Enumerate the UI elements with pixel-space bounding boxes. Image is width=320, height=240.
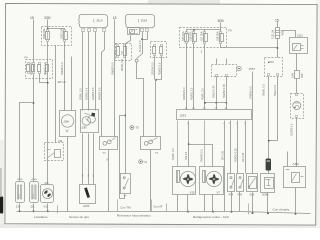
pin F129 top [296, 94, 298, 96]
riser fuse2 [193, 30, 195, 32]
node junction b [215, 102, 217, 104]
svg-text:SW/BR 0.35: SW/BR 0.35 [223, 84, 226, 98]
stub into J293 a [216, 103, 218, 110]
pin 6 of J519 right [146, 29, 149, 32]
wire S13 down [154, 56, 156, 80]
node junction F9 bus [193, 29, 195, 31]
node junction J20 branch [33, 102, 35, 104]
fuse box FD (dashed, centre) [116, 44, 132, 61]
fuse S7 [38, 63, 41, 74]
svg-text:BR/WS 0.5: BR/WS 0.5 [98, 87, 101, 100]
svg-text:J21: J21 [30, 204, 35, 208]
wire S131 down [277, 39, 279, 58]
connector J519 right (plate 2) [125, 15, 155, 28]
svg-text:GE 0.35: GE 0.35 [242, 152, 245, 162]
svg-text:F54: F54 [238, 192, 243, 196]
wire J293 to ground bus mid [224, 121, 226, 212]
relay box J322 [290, 38, 308, 54]
valve Y7 left [100, 137, 118, 150]
fuse box F9 (dashed) [180, 28, 227, 48]
wire branch to J20 [20, 103, 34, 182]
svg-text:SW/BL 0.5: SW/BL 0.5 [263, 84, 266, 96]
svg-text:GN/WS 0.5: GN/WS 0.5 [250, 86, 253, 99]
pressure switch F129 (dashed box) [291, 94, 304, 119]
svg-text:TD: TD [135, 127, 139, 130]
svg-text:BL/GE 0.5: BL/GE 0.5 [139, 40, 142, 52]
svg-text:0,84: 0,84 [292, 73, 295, 78]
node ground dot J21 [33, 210, 35, 212]
svg-text:SW/LI 0.35: SW/LI 0.35 [213, 85, 216, 98]
riser fuse3 [204, 30, 206, 32]
wire J322 to resistor [296, 54, 298, 71]
resistor S39 [295, 71, 300, 79]
svg-text:Con AT: Con AT [153, 205, 163, 209]
svg-text:G256: G256 [83, 204, 90, 208]
svg-text:B30: B30 [45, 16, 51, 20]
node junction fan branch [188, 143, 190, 145]
svg-text:RO/GE 0.35: RO/GE 0.35 [234, 148, 237, 162]
stub T2 top a [216, 59, 218, 65]
svg-text:J20: J20 [16, 204, 21, 208]
pin 1 of J519 left [82, 29, 85, 32]
fuse S5 [27, 63, 30, 74]
switch symbol F129 [293, 102, 301, 110]
svg-text:Sensor de giro: Sensor de giro [69, 215, 89, 219]
terminal symbol 30 [130, 126, 135, 130]
pressure sensor G65 [247, 174, 258, 192]
node junction B30 [47, 28, 49, 30]
node ground dot V35 [187, 211, 189, 213]
pin T2/1 [216, 75, 218, 77]
ground bus line [17, 212, 311, 214]
wire T2/1 down [216, 77, 218, 103]
fuse S228 [46, 30, 50, 42]
node ground dot G65 [252, 212, 254, 214]
relay J39 (dashed) [45, 143, 64, 161]
svg-text:SW/LI 0.5: SW/LI 0.5 [274, 84, 277, 96]
wire J286 to ground bus [67, 137, 69, 212]
wire D2/2 down [277, 77, 279, 141]
svg-text:S131 5A: S131 5A [272, 29, 275, 39]
wire G65 to bus [252, 193, 254, 213]
wire V11 to bus [47, 204, 49, 212]
wire V7 motor to bus [212, 195, 214, 212]
stub into J293 b [226, 103, 228, 110]
fuse box FB holder (dashed, left) [26, 60, 53, 79]
stub T2 top b [226, 59, 228, 65]
svg-text:J322: J322 [297, 33, 304, 37]
svg-text:S229 15A: S229 15A [60, 28, 63, 39]
wire V35 motor to bus [187, 195, 189, 212]
wire pin2 to J285 [88, 32, 90, 111]
wire V7 fuse to bus [204, 195, 206, 212]
svg-text:Con TM: Con TM [120, 205, 131, 209]
node dot D2 [268, 62, 270, 64]
wire merged to Y7 right pin [155, 80, 157, 137]
svg-text:J557: J557 [249, 67, 256, 71]
svg-text:S39: S39 [301, 73, 304, 78]
svg-text:↗J59: ↗J59 [292, 162, 299, 166]
svg-text:G65: G65 [249, 193, 254, 197]
pin 2 of J519 left [88, 29, 91, 32]
wire F54 to bus [239, 192, 241, 212]
svg-text:SW/RO 1.0: SW/RO 1.0 [61, 62, 64, 75]
wire relay module to mirror switch [126, 36, 131, 174]
connector blob above N280 [266, 159, 271, 171]
svg-text:RO/BL 2.5: RO/BL 2.5 [172, 148, 175, 160]
pin 4 of J519 left [103, 29, 106, 32]
wire feed to J286 right pin [71, 57, 73, 111]
wire J285 to G256 pin b [88, 134, 90, 185]
wire link to fuse S229 [48, 29, 65, 31]
svg-text:RO/GE 2.5: RO/GE 2.5 [191, 87, 194, 100]
wire J293 spare [245, 121, 247, 174]
wire S17 to J293 [204, 44, 206, 110]
node ground dot F18 [231, 211, 233, 213]
wire TM return elbow [120, 116, 126, 199]
wire terminal-15 to J21 [33, 20, 35, 182]
wire below inline connector [137, 63, 144, 137]
svg-text:GR/RO 0.5: GR/RO 0.5 [92, 87, 95, 100]
svg-text:J285: J285 [81, 126, 87, 130]
node ground dot J59 [295, 213, 297, 215]
connector T2 (dashed, mid) [212, 65, 237, 77]
motor unit J286 [60, 111, 76, 137]
wire pin4 to Y7 left valve [102, 32, 105, 137]
fuse S131 [275, 28, 281, 39]
fuse S16 [193, 32, 197, 44]
wire J21 to bus [33, 204, 35, 212]
terminal symbol 31 [139, 160, 144, 164]
section divider d [166, 204, 168, 212]
sensor G256 [80, 185, 96, 204]
svg-text:S16 20A: S16 20A [189, 31, 192, 41]
svg-text:Refrigeracion motor - AAZ: Refrigeracion motor - AAZ [193, 215, 229, 219]
section divider b [117, 200, 119, 212]
fuse S6 [32, 63, 35, 74]
thermo switch F18 [228, 174, 235, 192]
svg-text:15: 15 [30, 16, 34, 20]
wire J293 to V35 fuse pin [177, 121, 179, 167]
wire D2/1 to N280 [268, 77, 270, 159]
stub J59 aux [287, 152, 289, 167]
node connector ring T2 [237, 66, 241, 70]
node junction N280 branch [268, 140, 270, 142]
node junction c [226, 102, 228, 104]
wire S15 to J293 [186, 44, 188, 110]
svg-text:S17 30A: S17 30A [200, 31, 203, 41]
node connector in line [135, 59, 138, 62]
wire J285 to G256 pin a [82, 134, 84, 185]
fuse S13 [153, 45, 156, 56]
wire resistor to F129 [296, 79, 298, 94]
pin 3 of J519 left [94, 29, 97, 32]
svg-text:B30: B30 [218, 19, 224, 23]
wire J59 to bus right [295, 188, 297, 214]
wire B30 to fuse box F9 [220, 23, 222, 32]
svg-text:Retrovisor fotocromatico: Retrovisor fotocromatico [117, 214, 151, 218]
section divider a [57, 206, 59, 214]
svg-text:J39: J39 [58, 139, 63, 143]
fuse box SA (dashed) [42, 27, 72, 46]
wire J20 to bus [19, 204, 21, 212]
svg-text:V7: V7 [217, 191, 221, 195]
wire pin6 down [147, 32, 149, 40]
svg-text:Y7: Y7 [102, 151, 106, 155]
radiator fan V7 [200, 167, 224, 195]
thermo switch F54 [237, 174, 244, 192]
node junction mirror feed [124, 115, 126, 117]
pin D2/1 [268, 74, 270, 76]
pin 5 of J519 right [141, 29, 144, 32]
wire branch to V7 motor [189, 145, 213, 167]
svg-text:V35: V35 [190, 191, 195, 195]
valve N280 [261, 174, 275, 193]
wire V35 fuse to bus [177, 195, 179, 212]
fuse S18 [220, 32, 224, 44]
svg-text:F9: F9 [228, 29, 232, 33]
wire B30 feed to fuse S228 [47, 20, 49, 31]
relay J59 [284, 167, 306, 188]
mirror switch box (Con TM) [121, 174, 131, 196]
svg-text:15: 15 [113, 16, 117, 20]
svg-text:S228 20A: S228 20A [43, 28, 46, 39]
fuse S229 [64, 30, 68, 42]
svg-text:SW 2.5: SW 2.5 [185, 151, 188, 160]
connector J519 left (onboard supply unit plate) [79, 15, 108, 28]
svg-text:GE/RO 0.5: GE/RO 0.5 [290, 123, 293, 136]
wire J322 top hook [282, 31, 296, 38]
wire T2/2 down [226, 77, 228, 103]
svg-text:Con climatic.: Con climatic. [273, 208, 291, 212]
valve Y7 right [141, 137, 161, 150]
fuse S8 [46, 63, 49, 74]
svg-text:15: 15 [275, 18, 279, 22]
wire Y7 left to ground bus [108, 150, 110, 212]
svg-text:RO/GE 0.5: RO/GE 0.5 [158, 62, 161, 75]
svg-text:GE/SW 0.5: GE/SW 0.5 [151, 62, 154, 75]
wire J293 to F54 [237, 121, 239, 174]
wire pin5 down [142, 32, 144, 40]
svg-text:RO/BL 2.5: RO/BL 2.5 [202, 88, 205, 100]
wire J285 to G256 pin c [93, 134, 95, 185]
connector box D2 (dashed) [265, 58, 283, 77]
svg-text:4/58: 4/58 [282, 30, 285, 35]
wire internal bus F9 [187, 30, 221, 32]
wire link to N280 branch [269, 140, 278, 142]
wire pin3 to J285 [95, 32, 97, 111]
section divider c [151, 200, 153, 212]
fuse S11 [124, 45, 127, 58]
svg-text:J519: J519 [96, 18, 103, 22]
node junction a [204, 102, 206, 104]
relay module under J519 right [128, 28, 140, 35]
wire junction bar [205, 102, 227, 104]
node junction pin5/pin6 [141, 38, 143, 40]
wire pin1 to J285 [82, 32, 84, 111]
section divider e [248, 204, 250, 215]
wire link pins [143, 39, 148, 41]
wire J293 to F18 [230, 121, 232, 174]
wire Y7 right to ground bus [150, 150, 152, 212]
svg-text:J293: J293 [180, 114, 187, 118]
wire J293 to V7 fuse pin [204, 121, 206, 167]
wire J293 to V35 motor [188, 121, 190, 167]
pin F129 bottom [296, 116, 298, 118]
radiator fan V35 [173, 167, 196, 195]
svg-text:SW/GR 0.5: SW/GR 0.5 [111, 62, 114, 75]
node ground dot J20 [19, 210, 21, 212]
wire F129 to J59 [296, 118, 298, 167]
svg-text:RO/SW 1.0: RO/SW 1.0 [183, 87, 186, 100]
wire S228 to V11 pump [47, 42, 49, 185]
heater element J21 [30, 179, 39, 203]
svg-text:GR/GE 0.5: GR/GE 0.5 [86, 87, 89, 100]
wire terminal-15 mid to Y7 [114, 20, 116, 137]
svg-text:FA: FA [25, 56, 28, 60]
wire 15 to fuse S131 [277, 22, 279, 28]
wire blob to N280 [268, 171, 270, 174]
control unit J293 (fan control) [177, 110, 252, 120]
node junction pump feed [47, 82, 49, 84]
wire S229 to J286 [64, 42, 66, 111]
fuse S10 [117, 45, 120, 58]
svg-text:Y7: Y7 [155, 151, 159, 155]
wire S7 jog to pump feed [40, 74, 48, 83]
node ground dot N280 [267, 212, 269, 214]
instrument unit J285 [81, 110, 99, 133]
svg-text:N280: N280 [262, 193, 269, 197]
svg-text:WS/BL 0.5: WS/BL 0.5 [121, 59, 124, 71]
svg-text:V11: V11 [44, 182, 49, 185]
pin T2/2 [226, 75, 228, 77]
node ground dot V7 [212, 211, 214, 213]
wire F18 to bus [231, 192, 233, 212]
pump V11 [41, 182, 54, 203]
node ground dot V11 [47, 210, 49, 212]
svg-text:S15 10A: S15 10A [182, 31, 185, 41]
node junction merge [155, 79, 157, 81]
svg-text:Lavafaros: Lavafaros [34, 215, 48, 219]
svg-text:J286: J286 [63, 119, 69, 123]
fuse box FC (dashed, mid) [151, 42, 167, 58]
pin D2/2 [277, 74, 279, 76]
fuse S17 [204, 32, 208, 44]
svg-text:GR/BL 0.5: GR/BL 0.5 [80, 88, 83, 100]
svg-text:J519: J519 [141, 18, 148, 22]
fuse S15 [185, 32, 189, 44]
svg-text:BR 0.35: BR 0.35 [221, 150, 224, 160]
svg-text:SW/RO 2.5: SW/RO 2.5 [201, 149, 204, 162]
svg-text:S18 30A: S18 30A [216, 31, 219, 41]
relay symbol J322 [293, 44, 304, 51]
wire merged to Y7 right [137, 40, 143, 59]
heater element J20 [16, 179, 25, 203]
wire S16 to J293 [193, 44, 195, 110]
svg-text:SW 1.5: SW 1.5 [58, 81, 67, 84]
node junction S131/S18 [277, 47, 279, 49]
wire S18 east to S131 [221, 44, 278, 48]
wire from SA box to J39 relay [55, 46, 57, 143]
wire N280 to bus [267, 193, 269, 214]
wire S14 down merges [156, 56, 162, 80]
wire J557 stub to G65 [252, 72, 254, 174]
fuse S14 [160, 45, 163, 56]
svg-text:T10: T10 [270, 61, 275, 64]
